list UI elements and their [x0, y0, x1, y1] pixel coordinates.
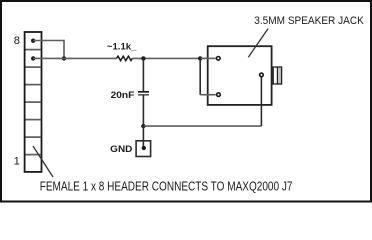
wire pin7 to resistor	[33, 57, 116, 59]
capacitor 20nF top plate	[138, 91, 149, 93]
jack sleeve pin	[260, 73, 264, 77]
ground terminal dot	[142, 146, 146, 150]
svg-text:FEMALE 1 x 8 HEADER CONNECTS T: FEMALE 1 x 8 HEADER CONNECTS TO MAXQ2000…	[40, 180, 293, 194]
leader line speaker jack label	[248, 29, 268, 58]
header cell divider 6	[26, 136, 41, 138]
capacitor 20nF bottom plate	[138, 94, 149, 96]
svg-text:1: 1	[14, 156, 20, 168]
header cell divider 1	[26, 49, 41, 51]
pin 7 terminal dot	[31, 56, 35, 60]
pin 8 terminal dot	[31, 39, 35, 43]
header cell divider 7	[26, 154, 41, 156]
wire sleeve pin to ground bus	[260, 77, 262, 127]
jack tip pin	[217, 57, 221, 61]
speaker jack J1 body	[208, 46, 272, 105]
resistor ~1.1k	[117, 56, 133, 60]
wire to GND box	[142, 126, 144, 148]
header cell divider 2	[26, 66, 41, 68]
wire cap bottom lead	[142, 95, 144, 126]
node cap junction	[141, 56, 145, 60]
wire ground bus	[143, 125, 261, 127]
svg-text:3.5MM SPEAKER JACK: 3.5MM SPEAKER JACK	[254, 15, 364, 27]
jack ring pin	[217, 93, 221, 97]
wire to ring pin	[200, 94, 216, 96]
svg-text:GND: GND	[110, 144, 132, 155]
node ground junction	[141, 124, 145, 128]
header cell divider 4	[26, 101, 41, 103]
ground terminal box	[136, 141, 151, 157]
connector J7: female 1x8 header outline	[25, 32, 42, 172]
wire cap top lead	[142, 58, 144, 91]
wire pin8 branch	[33, 41, 64, 59]
wire junction to tip pin	[200, 57, 216, 59]
leader line header label	[33, 146, 53, 177]
svg-text:20nF: 20nF	[111, 90, 135, 100]
svg-text:~1.1k_: ~1.1k_	[107, 42, 137, 52]
jack barrel	[277, 67, 281, 84]
header cell divider 5	[26, 119, 41, 121]
wire resistor to jack	[132, 57, 200, 59]
svg-text:8: 8	[14, 35, 20, 47]
junction pin8/pin7	[62, 56, 66, 60]
wire junction down	[199, 58, 201, 94]
header cell divider 3	[26, 84, 41, 86]
node jack input junction	[198, 56, 202, 60]
